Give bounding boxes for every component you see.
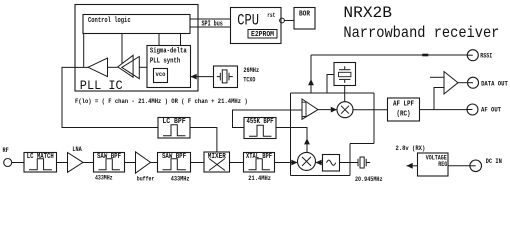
wire demod loop right: [373, 93, 375, 144]
wire resonator tap: [327, 75, 334, 94]
wire AF to comparator input: [434, 88, 444, 110]
filter XTAL BPF: [244, 153, 275, 173]
svg-text:433MHz: 433MHz: [171, 176, 190, 183]
mixer X symbol: [209, 159, 225, 171]
wire SAW BPF 2 to mixer: [191, 162, 205, 164]
arrowhead 2.0v output: [407, 163, 413, 169]
CPU block: [231, 8, 282, 44]
svg-text:(RC): (RC): [397, 111, 411, 119]
arrowhead into mixer2 right: [316, 160, 322, 166]
svg-text:rst: rst: [267, 12, 275, 19]
arrowhead mixer2 to 455K BPF: [304, 138, 310, 144]
control logic block: [83, 15, 190, 34]
AF OUT port circle: [467, 104, 478, 115]
svg-text:Control logic: Control logic: [88, 17, 131, 25]
svg-text:DC IN: DC IN: [486, 158, 503, 165]
amplifier buffer: [136, 152, 151, 173]
amplifier A1: [88, 58, 108, 77]
BOR block: [294, 8, 315, 30]
ceramic resonator block: [334, 63, 356, 86]
wire RF to LC MATCH: [12, 162, 24, 164]
svg-text:26MHz: 26MHz: [243, 67, 259, 74]
wire control to sigma-delta 2: [180, 34, 182, 46]
filter SAW BPF 1: [94, 153, 125, 173]
rst pin circle: [280, 18, 285, 23]
arrowhead into quadrature mixer: [331, 107, 337, 113]
arrowhead RSSI up: [308, 79, 314, 85]
svg-text:TCXO: TCXO: [243, 76, 255, 83]
svg-text:DATA OUT: DATA OUT: [481, 81, 508, 88]
crystal 20.945MHz symbol: [358, 157, 370, 168]
wire A2 to A1: [104, 66, 118, 68]
svg-text:21.4MHz: 21.4MHz: [248, 175, 271, 182]
resonator symbol: [339, 66, 351, 83]
svg-text:20.945MHz: 20.945MHz: [355, 176, 383, 183]
wire 455K BPF output to limiter: [233, 110, 303, 128]
wire into DC IN circle: [470, 165, 476, 167]
svg-text:LC MATCH: LC MATCH: [27, 153, 54, 161]
low pass filter block: [323, 155, 340, 172]
arrowhead into sigma-delta: [191, 74, 197, 80]
svg-text:buffer: buffer: [137, 176, 155, 183]
RSSI port circle: [467, 50, 478, 61]
voltage regulator block: [418, 153, 449, 176]
wire control to sigma-delta 1: [158, 34, 160, 46]
svg-text:SAW BPF: SAW BPF: [162, 153, 186, 161]
amplifier A2 (double buffer): [118, 55, 140, 78]
wire rst to BOR: [284, 20, 294, 22]
wire AF LPF to AF OUT: [420, 109, 468, 111]
svg-text:Sigma-delta: Sigma-delta: [150, 48, 187, 56]
RF input port circle: [4, 159, 12, 167]
svg-text:E2PROM: E2PROM: [251, 31, 274, 39]
svg-text:F(lo) = ( F chan - 21.4MHz ) O: F(lo) = ( F chan - 21.4MHz ) OR ( F chan…: [75, 98, 248, 105]
wire crystal node vertical: [349, 144, 351, 176]
svg-text:BOR: BOR: [299, 10, 311, 18]
wire control to buffer amp A2: [121, 34, 123, 64]
wire LNA to SAW BPF 1: [83, 162, 94, 164]
wire regulator output: [407, 165, 418, 167]
wire limiter to quadrature mixer: [318, 109, 337, 111]
wire into RSSI circle: [467, 54, 473, 56]
arrowhead into mixer2 left: [291, 160, 297, 166]
wire PLL output to LC BPF: [62, 67, 158, 127]
wire control to buffer amp A1: [83, 34, 85, 68]
wire RSSI vertical: [310, 55, 312, 93]
quadrature detector mixer circle: [337, 102, 353, 118]
VCO block: [154, 69, 168, 83]
mixer2 X symbol: [302, 157, 311, 166]
wire buffer to SAW BPF 2: [151, 162, 158, 164]
svg-text:vco: vco: [156, 71, 166, 78]
svg-text:RF: RF: [3, 147, 10, 154]
svg-text:NRX2B: NRX2B: [343, 4, 392, 22]
DATA OUT port circle: [468, 77, 479, 88]
wire LPF to crystal: [340, 162, 358, 164]
filter LC BPF: [158, 118, 190, 139]
filter LC MATCH: [24, 153, 57, 173]
wire demod loop bottom: [291, 175, 351, 177]
wire loop upper-right horizontal: [350, 143, 374, 145]
wire comparator reference stub: [430, 76, 444, 78]
wire LC BPF to mixer LO port: [190, 128, 217, 153]
svg-text:433MHz: 433MHz: [95, 175, 113, 182]
svg-text:REG: REG: [438, 161, 447, 168]
wire resonator to quadrature mixer: [344, 86, 346, 102]
wire VCO to amp A2: [139, 66, 147, 68]
svg-text:SPI bus: SPI bus: [202, 20, 223, 28]
svg-text:PLL IC: PLL IC: [80, 78, 123, 93]
svg-text:PLL synth: PLL synth: [150, 57, 180, 65]
amplifier limiter: [302, 99, 319, 119]
wire XTAL BPF to mixer2: [275, 162, 298, 164]
mixer1 X symbol: [341, 106, 349, 114]
svg-text:RSSI: RSSI: [480, 52, 492, 59]
IC U1 PLL IC outer box: [75, 5, 198, 92]
wire DC IN to regulator: [448, 165, 470, 167]
second mixer circle: [298, 152, 316, 170]
first mixer block: [204, 152, 230, 172]
wire into AF OUT circle: [467, 109, 473, 111]
filter 455K BPF: [244, 118, 276, 139]
wire demod loop top: [291, 92, 375, 94]
sine symbol: [327, 160, 336, 165]
svg-text:XTAL BPF: XTAL BPF: [246, 153, 272, 161]
svg-text:2.8v (RX): 2.8v (RX): [396, 145, 426, 152]
DC IN port circle: [470, 160, 482, 172]
svg-text:AF OUT: AF OUT: [481, 107, 501, 114]
wire mixer2 to 455K BPF input: [276, 128, 307, 153]
wire mixer1 to AF LPF: [353, 109, 388, 111]
wire LC MATCH to LNA: [57, 162, 68, 164]
crystal symbol in TCXO: [217, 70, 233, 83]
comparator U2: [444, 72, 458, 95]
svg-text:LNA: LNA: [72, 146, 82, 153]
svg-text:Narrowband receiver: Narrowband receiver: [343, 24, 499, 42]
wire SPI bus upper: [190, 18, 231, 20]
wire demod loop left: [290, 93, 292, 176]
filter SAW BPF 2: [158, 153, 191, 173]
wire TCXO to sigma-delta: [191, 76, 214, 78]
wire comparator to DATA OUT: [458, 82, 468, 84]
svg-text:SAW BPF: SAW BPF: [97, 153, 121, 161]
TCXO block: [214, 66, 238, 88]
wire into DATA OUT circle: [468, 82, 474, 84]
amplifier LNA: [68, 153, 84, 173]
wire RSSI horizontal: [311, 54, 467, 56]
wire SAW BPF 1 to buffer: [125, 162, 136, 164]
junction tick on RSSI wire: [422, 54, 428, 57]
svg-text:CPU: CPU: [237, 12, 259, 30]
E2PROM block: [248, 30, 277, 39]
wire mixer to XTAL BPF: [230, 162, 244, 164]
sigma-delta PLL synthesizer block: [147, 46, 191, 88]
AF LPF block: [388, 98, 420, 121]
wire LPF to mixer2: [316, 162, 323, 164]
svg-text:AF LPF: AF LPF: [393, 101, 414, 109]
wire SPI bus lower: [190, 26, 231, 28]
